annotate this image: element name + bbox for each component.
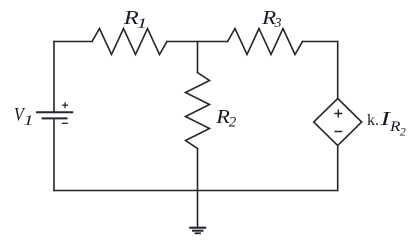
wire top rail left segment <box>54 41 92 43</box>
label k.I_R2 <box>367 109 406 138</box>
svg-text:R: R <box>389 119 401 135</box>
V1 plus sign <box>62 102 68 108</box>
svg-text:1: 1 <box>137 16 148 32</box>
label V1 <box>14 104 34 129</box>
resistor R2 <box>186 73 210 149</box>
wire bottom rail <box>54 190 338 192</box>
svg-text:R: R <box>215 107 230 128</box>
voltage source V1 battery plates <box>36 112 73 118</box>
wire right branch upper <box>337 42 339 99</box>
wire middle branch upper <box>197 42 199 73</box>
V1 minus sign <box>62 122 68 124</box>
svg-text:1: 1 <box>24 113 34 129</box>
wire left branch lower <box>53 118 55 190</box>
wire left branch upper <box>53 42 55 113</box>
svg-text:k.: k. <box>367 112 379 129</box>
label R3 <box>261 8 282 31</box>
svg-text:2: 2 <box>229 115 237 131</box>
label R2 <box>215 107 237 131</box>
ground <box>189 228 206 234</box>
svg-text:3: 3 <box>274 16 282 31</box>
U1 minus sign <box>334 131 342 133</box>
wire top rail right segment <box>303 41 338 43</box>
wire middle branch lower <box>197 149 199 191</box>
label R1 <box>123 8 148 32</box>
wire top rail middle segment <box>167 41 228 43</box>
wire right branch lower <box>337 146 339 191</box>
dependent source U1 diamond <box>314 99 362 146</box>
resistor R3 <box>228 29 303 55</box>
wire ground stem <box>197 191 199 228</box>
resistor R1 <box>92 29 167 55</box>
svg-text:2: 2 <box>400 124 406 138</box>
U1 plus sign <box>334 110 342 118</box>
